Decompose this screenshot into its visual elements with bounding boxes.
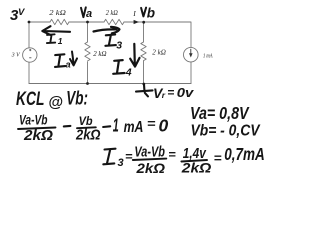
svg-text:=: = — [125, 149, 133, 163]
handwritten node label Vb — [141, 8, 146, 17]
node Va — [86, 21, 89, 24]
current arrow I3 (curved, pointing right) — [94, 27, 120, 33]
junction node on bottom wire below Vb (ground ref) — [142, 83, 145, 86]
svg-text:Va= 0,8V: Va= 0,8V — [190, 103, 250, 123]
svg-text:mA: mA — [124, 119, 144, 136]
svg-text:@: @ — [48, 94, 63, 111]
voltage source circle V1 (3 V) — [23, 48, 37, 62]
eq2 label I3 = — [103, 149, 115, 165]
eq1 minus before 1 mA — [103, 125, 110, 128]
svg-text:1: 1 — [58, 36, 63, 46]
current source circle I1 (1 mA) — [184, 47, 199, 62]
plus sign inside voltage source — [29, 49, 31, 51]
printed current arrow I on top wire — [134, 20, 139, 24]
svg-text:1: 1 — [113, 114, 119, 135]
svg-text:=: = — [147, 116, 156, 131]
resistor R1 (2k, horizontal) — [50, 19, 69, 24]
eq1 fraction B bar — [77, 126, 96, 129]
svg-text:Vb:: Vb: — [66, 88, 88, 109]
wire R3 to bottom — [87, 62, 89, 84]
svg-text:V: V — [18, 7, 25, 18]
resistor R3 (2k, vertical at Va) — [85, 42, 90, 61]
ground symbol (handwritten) — [136, 85, 153, 97]
svg-text:3: 3 — [118, 157, 124, 169]
svg-text:=: = — [167, 85, 174, 99]
eq2 fraction B bar — [181, 160, 207, 162]
svg-text:0v: 0v — [177, 85, 194, 100]
svg-text:2 kΩ: 2 kΩ — [93, 50, 106, 58]
svg-text:2 kΩ: 2 kΩ — [49, 9, 66, 17]
svg-text:2kΩ: 2kΩ — [23, 128, 54, 144]
svg-text:=: = — [214, 151, 223, 165]
svg-text:2 kΩ: 2 kΩ — [106, 10, 118, 17]
handwritten node label Va — [81, 7, 86, 17]
label I4 — [113, 60, 124, 74]
wire source to bottom-left corner — [28, 62, 30, 83]
eq1 fraction A bar — [18, 128, 56, 130]
svg-text:2kΩ: 2kΩ — [181, 160, 212, 175]
wire current source to bottom wire — [190, 62, 192, 84]
resistor R2 (2k, horizontal) — [104, 19, 124, 24]
node Vb — [142, 21, 145, 24]
resistor R4 (2k, vertical at Vb) — [141, 42, 146, 61]
svg-text:1 mA: 1 mA — [203, 53, 213, 59]
eq2 fraction A bar — [133, 159, 167, 160]
wire top-left to R1 — [29, 21, 50, 23]
svg-text:4: 4 — [125, 66, 132, 78]
minus sign inside voltage source — [29, 57, 31, 59]
svg-text:2kΩ: 2kΩ — [135, 161, 165, 175]
eq1 minus between fractions — [64, 125, 71, 128]
left branch wire from top node down to source — [28, 22, 30, 48]
svg-text:a: a — [65, 60, 70, 71]
current arrow I4 (down, left of R4) — [130, 44, 139, 67]
svg-text:I: I — [132, 9, 136, 18]
bottom wire — [29, 83, 191, 85]
current arrow I1 (pointing left under R1) — [42, 26, 70, 35]
svg-text:0: 0 — [159, 115, 169, 135]
svg-text:2kΩ: 2kΩ — [75, 128, 101, 144]
svg-text:3 V: 3 V — [11, 51, 21, 58]
wire R1 to node Va — [69, 21, 88, 23]
svg-text:0,7mA: 0,7mA — [224, 144, 264, 164]
label I3 — [105, 35, 116, 46]
wire R4 to bottom — [143, 61, 145, 84]
node at top-left corner — [28, 21, 31, 24]
branch Vb down to R4 — [143, 22, 145, 42]
svg-text:b: b — [147, 6, 155, 21]
wire R2 to node Vb with current I — [124, 21, 144, 23]
junction node on bottom wire below Va — [86, 82, 89, 85]
arrow inside current source — [190, 49, 192, 54]
label I1 — [47, 34, 55, 43]
svg-text:Va-Vb: Va-Vb — [19, 112, 48, 128]
svg-text:Vb= - 0,CV: Vb= - 0,CV — [191, 122, 261, 139]
middle branch: Va down to R3 — [87, 22, 89, 42]
label Ia — [55, 54, 65, 67]
wire node Va to R2 — [88, 21, 105, 23]
svg-text:=: = — [168, 147, 176, 161]
svg-text:3: 3 — [116, 39, 122, 51]
svg-text:KCL: KCL — [16, 89, 45, 110]
svg-text:Vb: Vb — [79, 114, 93, 128]
current arrow Ia (down, left of R3) — [70, 52, 77, 66]
svg-text:a: a — [86, 8, 92, 20]
svg-text:2 kΩ: 2 kΩ — [152, 49, 166, 57]
wire node Vb to top-right corner and down to current source — [144, 22, 192, 47]
